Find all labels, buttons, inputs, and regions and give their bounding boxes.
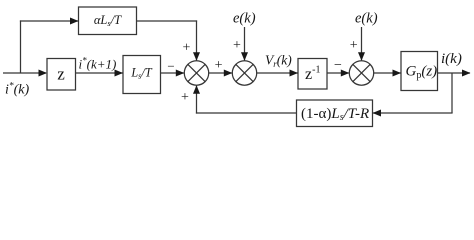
svg-text:+: + [215, 58, 223, 73]
arrowhead into S3 top [358, 52, 365, 61]
arrowhead into Ls/T block [115, 70, 124, 77]
summer S1 circle [184, 61, 208, 85]
arrowhead into Gp block [393, 70, 402, 77]
summer S2 cross [236, 64, 253, 81]
svg-text:z-1: z-1 [305, 65, 320, 84]
arrowhead into alpha block [70, 18, 79, 25]
svg-text:+: + [181, 90, 189, 105]
svg-text:e(k): e(k) [233, 11, 256, 27]
svg-text:z: z [57, 64, 65, 83]
svg-text:(1-α)Ls/T-R: (1-α)Ls/T-R [301, 106, 369, 123]
arrowhead into z block [39, 70, 48, 77]
arrowhead into S1 left [176, 70, 185, 77]
arrowhead into S3 left [341, 70, 350, 77]
wire feedback right horizontal [373, 112, 453, 114]
block feedback (1-a)Ls/T-R [297, 100, 373, 127]
arrowhead into S1 bottom [193, 85, 200, 94]
wire e(k) second vertical [361, 27, 363, 60]
wire input [3, 72, 46, 74]
block Gp(z) [401, 52, 438, 91]
svg-text:i*(k+1): i*(k+1) [79, 56, 117, 72]
svg-text:+: + [183, 41, 191, 56]
block z [47, 59, 76, 91]
arrowhead into S2 top [241, 52, 248, 61]
summer S3 cross [353, 64, 370, 81]
svg-text:−: − [334, 58, 342, 73]
wire down into summer S1 top [196, 20, 198, 60]
block z^-1 [298, 59, 327, 90]
arrowhead into z^-1 block [290, 70, 299, 77]
wire z output [76, 72, 123, 74]
wire Ls/T output [161, 72, 184, 74]
arrowhead into S2 left [224, 70, 233, 77]
summer S3 circle [349, 61, 373, 85]
arrowhead output i(k) [462, 70, 471, 77]
wire alpha block output [137, 20, 198, 22]
wire output branch vertical [451, 73, 453, 113]
wire e(k) first vertical [244, 27, 246, 60]
arrowhead into S1 top [193, 52, 200, 61]
svg-text:e(k): e(k) [355, 11, 378, 27]
wire feedback vertical up to S1 [196, 86, 198, 114]
wire Gp output [438, 72, 471, 74]
arrowhead into feedback block [373, 110, 382, 117]
svg-text:Vr(k): Vr(k) [265, 53, 292, 70]
svg-text:i(k): i(k) [441, 51, 462, 67]
svg-text:−: − [167, 59, 174, 74]
svg-text:αLs/T: αLs/T [94, 13, 122, 28]
wire S1 to S2 [209, 72, 232, 74]
wire input branch vertical [20, 20, 22, 73]
svg-text:Gp(z): Gp(z) [406, 64, 438, 82]
block Ls/T [123, 56, 161, 94]
wire feedback left horizontal [196, 112, 297, 114]
wire top to alpha block [20, 20, 78, 22]
summer S2 circle [232, 61, 256, 85]
svg-text:+: + [350, 38, 358, 53]
summer S1 cross [188, 64, 205, 81]
svg-text:i*(k): i*(k) [5, 82, 30, 98]
wire S3 output [374, 72, 401, 74]
block alpha Ls/T [79, 7, 137, 35]
svg-text:+: + [233, 38, 241, 53]
wire S2 output [257, 72, 298, 74]
wire z^-1 output [327, 72, 349, 74]
svg-text:Ls/T: Ls/T [130, 66, 152, 81]
